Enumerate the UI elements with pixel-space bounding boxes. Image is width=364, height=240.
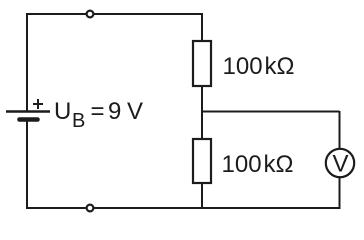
wire bottom horizontal right [94,207,341,209]
svg-text:9: 9 [108,98,121,125]
wire left vertical upper [26,13,28,111]
svg-text:100 kΩ: 100 kΩ [222,151,294,178]
svg-text:100 kΩ: 100 kΩ [223,53,295,80]
svg-text:U: U [54,98,71,125]
battery U_B [6,99,50,120]
svg-text:V: V [127,98,143,125]
wire left vertical lower [27,121,89,208]
wire middle branch bottom [201,183,203,208]
wire right vertical lower [339,177,341,208]
wire middle between resistors [201,86,203,139]
voltmeter V [326,149,354,178]
resistor R2 [193,139,211,183]
svg-text:B: B [72,110,85,132]
svg-text:=: = [91,98,105,125]
svg-text:V: V [332,151,348,178]
terminal top [87,11,94,18]
terminal bottom [87,205,94,212]
wire right vertical upper [339,111,341,149]
label 100 kOhm R2 [222,151,294,178]
label battery voltage [54,98,143,132]
label 100 kOhm R1 [223,53,295,80]
wire middle branch top [201,13,203,41]
node junction to voltmeter [202,111,340,113]
wire top horizontal [27,13,202,15]
resistor R1 [193,41,211,86]
